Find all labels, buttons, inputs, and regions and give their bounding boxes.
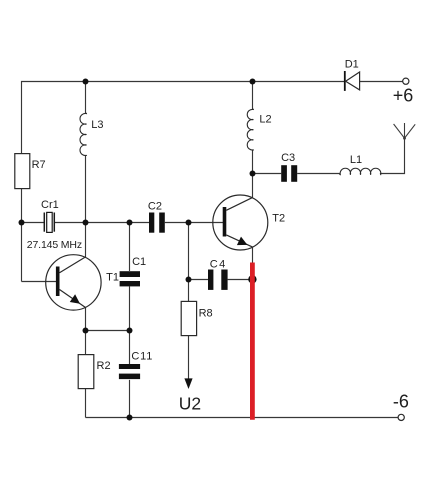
wire C4 left: [189, 279, 209, 281]
junction dot C1 bottom: [127, 328, 133, 334]
junction dot top rail L3: [83, 79, 89, 85]
junction dot C4 left: [186, 277, 192, 283]
wire C3 left: [253, 173, 282, 175]
svg-text:L2: L2: [259, 113, 271, 125]
capacitor C2: [148, 201, 165, 233]
junction dot T2 base: [186, 220, 192, 226]
svg-text:C11: C11: [131, 351, 152, 363]
resistor R2: [78, 355, 110, 389]
svg-text:L3: L3: [91, 119, 103, 131]
wire L3 bottom to T1 collector: [85, 155, 87, 257]
junction dot T1 emitter: [83, 328, 89, 334]
wire top rail left segment: [22, 82, 345, 282]
wire C11 top lead: [129, 331, 131, 365]
wire T2 emitter lead: [252, 247, 254, 264]
wire R8 branch vertical: [188, 223, 190, 302]
svg-text:T1: T1: [106, 272, 119, 284]
junction dot C1 top: [127, 220, 133, 226]
capacitor C1: [120, 256, 147, 286]
wire C1 top lead: [129, 223, 131, 272]
wire C1 bottom lead: [129, 286, 131, 330]
svg-text:27.145 MHz: 27.145 MHz: [27, 239, 82, 251]
svg-text:R7: R7: [32, 159, 46, 171]
inductor L2: [247, 109, 271, 150]
capacitor C3: [281, 152, 297, 182]
svg-text:D1: D1: [345, 58, 359, 70]
junction dot Cr1 right: [83, 220, 89, 226]
svg-text:C4: C4: [210, 258, 227, 270]
diode D1: [345, 58, 360, 91]
wire L3 top lead: [85, 82, 87, 114]
wire T1 base: [22, 281, 57, 283]
crystal Cr1: [41, 199, 59, 232]
wire bottom rail: [86, 417, 399, 419]
wire C3 to L1: [297, 173, 340, 175]
svg-text:+6: +6: [393, 86, 414, 106]
transistor T2: [213, 195, 285, 250]
inductor L1: [340, 154, 381, 175]
wire T1 emitter lead: [85, 308, 87, 331]
svg-text:C2: C2: [148, 201, 162, 213]
junction dot Cr1 left: [19, 220, 25, 226]
transistor T1: [46, 255, 119, 310]
terminal -6: [393, 391, 409, 420]
capacitor C11: [119, 351, 152, 380]
terminal +6: [393, 78, 414, 105]
junction dot top rail L2: [250, 79, 256, 85]
svg-text:Cr1: Cr1: [41, 199, 59, 211]
wire R2 bottom lead: [85, 389, 87, 418]
capacitor C4: [208, 258, 228, 290]
junction dot C4 right on red line: [248, 275, 256, 283]
svg-text:R8: R8: [199, 307, 213, 319]
wire R2 top lead: [85, 331, 87, 355]
wire L2 bottom to T2 collector: [252, 150, 254, 198]
wire C2 to T2 base: [165, 222, 223, 224]
svg-text:U2: U2: [179, 394, 201, 414]
resistor R8: [181, 301, 212, 335]
wire Cr1 to C2: [55, 222, 149, 224]
red highlight line: [250, 263, 255, 420]
inductor L3: [80, 113, 104, 156]
svg-text:T2: T2: [272, 213, 285, 225]
wire top rail right segment: [360, 81, 403, 83]
wire C4 right to red line: [228, 279, 253, 281]
wire L1 to antenna corner: [380, 138, 405, 173]
wire C11 bottom lead: [129, 380, 131, 418]
svg-text:R2: R2: [97, 360, 111, 372]
wire T1 emitter to C1 row: [86, 330, 130, 332]
svg-text:L1: L1: [350, 154, 362, 166]
svg-text:C3: C3: [281, 152, 295, 164]
svg-text:C1: C1: [132, 256, 146, 268]
junction dot C3 tap: [250, 171, 256, 177]
antenna: [394, 123, 416, 140]
wire R8 bottom to arrow: [188, 336, 190, 385]
arrow to U2: [184, 378, 192, 389]
wire L2 top lead: [252, 82, 254, 110]
wire Cr1 left: [22, 222, 45, 224]
resistor R7: [15, 154, 46, 189]
junction dot C11 bottom: [127, 415, 133, 421]
svg-text:-6: -6: [393, 391, 409, 411]
